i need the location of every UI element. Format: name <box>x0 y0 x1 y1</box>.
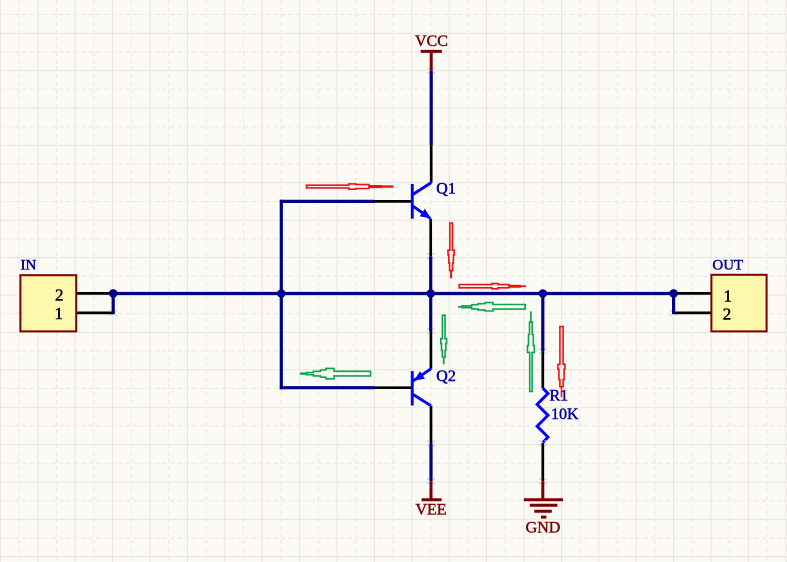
wire Q1 base <box>280 200 375 203</box>
junction OUT node <box>669 289 678 298</box>
wire Q2 base <box>280 386 375 389</box>
wire left vertical <box>280 200 283 389</box>
wire Q1 emitter to Q2 emitter <box>429 256 432 331</box>
junction R1 node <box>539 289 548 298</box>
svg-text:OUT: OUT <box>712 258 743 274</box>
svg-text:IN: IN <box>21 257 37 273</box>
junction center node <box>426 289 435 298</box>
svg-text:1: 1 <box>724 286 733 305</box>
wire VCC to Q1 collector <box>430 71 433 146</box>
junction IN node <box>109 289 118 298</box>
wire OUT pins tie vertical <box>672 292 675 314</box>
pin R1 top <box>541 351 544 388</box>
wire IN pins tie vertical <box>112 292 115 314</box>
part OUT <box>711 258 766 332</box>
pin Q2 collector <box>430 406 433 444</box>
pin Q1 emitter <box>429 219 432 256</box>
node hotspot markers <box>109 68 677 484</box>
arrow green left mid <box>458 303 525 311</box>
ground GND <box>524 481 563 536</box>
junction left loop node <box>277 289 286 298</box>
arrow red right top <box>307 184 394 189</box>
wire Q2 collector to VEE <box>429 443 432 481</box>
svg-text:R1: R1 <box>550 387 569 404</box>
arrow green left Q2 base <box>300 368 371 378</box>
arrow green down Q2 emitter <box>441 315 447 364</box>
svg-text:1: 1 <box>55 304 64 323</box>
power port VCC <box>415 33 448 71</box>
pin Q2 emitter <box>430 331 433 369</box>
wire node to R1 <box>541 294 544 352</box>
svg-text:VEE: VEE <box>415 502 446 519</box>
part IN <box>20 257 76 331</box>
pin Q1 collector <box>430 145 433 182</box>
transistor Q2 <box>411 369 431 406</box>
power port VEE <box>415 481 446 518</box>
svg-text:2: 2 <box>723 305 732 324</box>
arrow red down Q1 emitter <box>448 223 454 278</box>
arrow red right mid <box>459 284 526 289</box>
svg-text:VCC: VCC <box>415 33 448 50</box>
svg-text:GND: GND <box>526 519 561 536</box>
svg-text:Q1: Q1 <box>436 181 456 198</box>
arrow red down R1 <box>558 327 565 398</box>
pin OUT 2 <box>675 312 712 315</box>
pin R1 bottom <box>541 443 544 481</box>
transistor Q1 <box>411 183 431 219</box>
pin OUT 1 <box>675 292 712 295</box>
pin Q2 base <box>375 386 412 389</box>
pin IN 1 <box>76 312 113 315</box>
resistor R1 <box>537 388 548 442</box>
svg-text:Q2: Q2 <box>436 368 456 385</box>
wire main horizontal net <box>113 292 673 295</box>
arrow green up R1 left <box>528 311 535 391</box>
svg-text:2: 2 <box>55 286 64 305</box>
pin IN 2 <box>76 292 113 295</box>
pin Q1 base <box>375 200 412 203</box>
svg-text:10K: 10K <box>551 406 579 423</box>
